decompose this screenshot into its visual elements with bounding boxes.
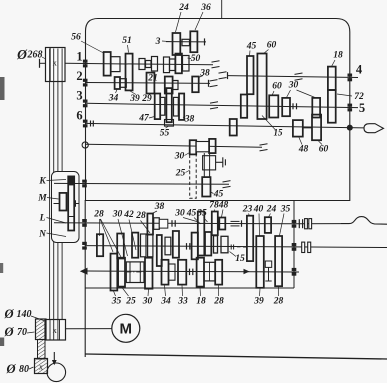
- svg-text:18: 18: [196, 297, 206, 307]
- break mark shaft 4 mid: [295, 73, 303, 80]
- wire leader d268: [42, 57, 48, 60]
- bearing shaft 2 left wall: [83, 79, 88, 87]
- wire countershaft: [166, 41, 206, 43]
- wire leader 38a: [199, 76, 204, 78]
- wire leader 23: [249, 214, 250, 217]
- wire shaft 1: [65, 63, 213, 65]
- gear 30 feed: [154, 218, 160, 230]
- gear 36: [190, 31, 197, 52]
- bearing shaft 4 right wall: [348, 74, 353, 82]
- wire leader 40: [258, 214, 261, 236]
- svg-text:55: 55: [160, 129, 170, 139]
- gear shaft6 mid: [230, 119, 237, 136]
- tick shaft 4 start: [227, 72, 229, 79]
- wire shaft 4: [228, 76, 350, 78]
- tick leadscrew a: [298, 219, 300, 228]
- bearing feed III arrow: [80, 268, 88, 275]
- gear 39 tall: [256, 236, 264, 288]
- break mark shaft 2: [210, 80, 218, 87]
- tick feed I b: [174, 220, 176, 227]
- wire leader 28g2: [141, 221, 151, 234]
- svg-text:30: 30: [112, 210, 123, 220]
- svg-text:36: 36: [200, 3, 211, 13]
- svg-text:30: 30: [174, 152, 185, 162]
- gear M: [60, 193, 67, 211]
- svg-text:80: 80: [19, 364, 29, 375]
- gear 28 feedII: [97, 234, 103, 256]
- tick leadscrew b: [302, 219, 304, 228]
- svg-text:39: 39: [129, 94, 140, 104]
- gear 28 tall right: [275, 236, 282, 286]
- svg-text:23: 23: [242, 205, 253, 215]
- wire leader 48: [299, 138, 302, 145]
- gear 35 tall: [111, 254, 118, 291]
- svg-text:70: 70: [17, 327, 27, 338]
- svg-text:25: 25: [175, 169, 186, 179]
- wire leader 38b: [183, 117, 186, 119]
- wire leader 25b: [122, 288, 129, 297]
- pump circle: [47, 363, 66, 382]
- wire leader 45s4: [249, 51, 252, 57]
- gear shaft7 right: [209, 139, 216, 153]
- wire motor to pulley: [66, 328, 112, 330]
- scan smudge mid left: [0, 263, 3, 273]
- wire leader 30g: [118, 219, 128, 256]
- gear 38 shaft2: [192, 77, 199, 93]
- svg-text:M: M: [120, 321, 133, 338]
- svg-text:30: 30: [174, 209, 185, 219]
- wire top section mark: [221, 0, 223, 19]
- pump arrow: [52, 352, 57, 365]
- wire shaft feed III: [87, 271, 294, 272]
- wire shaft 2: [85, 82, 210, 85]
- hub 34 bottom: [169, 264, 176, 280]
- gear 18-72 lower: [328, 90, 336, 123]
- wire leader 28b: [100, 219, 113, 252]
- svg-text:29: 29: [141, 94, 152, 104]
- gear 18-72 upper: [328, 67, 336, 90]
- wire leader 39b: [259, 289, 262, 297]
- gear cone c: [152, 57, 158, 72]
- bearing feed III right: [292, 268, 297, 276]
- pulley motor 140: [45, 320, 66, 341]
- gear 60 shaft5: [269, 95, 278, 117]
- gear 33: [178, 260, 186, 285]
- wire leader d70: [27, 332, 35, 333]
- coupling leadscrew: [305, 219, 312, 229]
- wire leader 25v: [186, 170, 191, 173]
- bearing ring shaft 7: [82, 142, 88, 148]
- wire M hub line: [54, 203, 60, 205]
- gear below 78: [214, 236, 218, 253]
- svg-text:18: 18: [333, 51, 343, 61]
- svg-text:34: 34: [160, 297, 171, 307]
- hub cone2: [170, 59, 176, 71]
- hub 34: [120, 79, 126, 88]
- svg-text:2: 2: [76, 69, 82, 83]
- wire machine bed line: [85, 354, 387, 359]
- wire leader N: [47, 233, 67, 237]
- wire leader 42g: [129, 220, 136, 251]
- tick shaft 2 end: [208, 80, 210, 87]
- gear cluster3 mid: [166, 88, 171, 122]
- gear feedII c: [132, 233, 138, 258]
- svg-text:35: 35: [111, 297, 122, 307]
- wire leader 30s5a: [287, 90, 291, 98]
- svg-text:K: K: [38, 177, 46, 187]
- spindle end bullet: [364, 124, 384, 133]
- bearing shaft 1 left wall: [83, 60, 88, 68]
- wire leader 18: [332, 60, 336, 67]
- svg-text:45: 45: [213, 190, 224, 200]
- gear 60 shaft4: [257, 54, 266, 120]
- svg-text:140: 140: [17, 309, 32, 320]
- gear feedII tall: [157, 235, 162, 266]
- bearing shaft 5 right wall: [348, 104, 353, 112]
- bearing feed II right: [292, 243, 297, 251]
- svg-text:30: 30: [288, 81, 299, 91]
- wire leader 15g: [262, 116, 276, 131]
- gear shaft5 left: [241, 95, 247, 118]
- svg-text:48: 48: [298, 145, 309, 155]
- break dashes shaft II: [231, 245, 246, 250]
- wire leadscrew hump: [341, 217, 387, 225]
- svg-text:45: 45: [186, 209, 197, 219]
- arrow feedII: [244, 269, 250, 275]
- bearing shaft 6 right wall: [347, 125, 353, 131]
- gear 78: [212, 212, 218, 236]
- wire feed III stub: [294, 271, 299, 273]
- wire leader L: [47, 218, 67, 224]
- tick feedII b: [189, 243, 191, 250]
- gear 45 feed tall: [198, 212, 205, 256]
- wire shaft feed II: [85, 246, 294, 247]
- wire main left vertical shaft line: [84, 200, 86, 357]
- pulley pump drive 70: [36, 319, 47, 340]
- gear 48: [293, 120, 303, 137]
- svg-text:24: 24: [178, 3, 189, 13]
- wire leader d140: [31, 316, 45, 321]
- svg-text:39: 39: [253, 297, 264, 307]
- wire leader 55: [166, 127, 169, 129]
- wire leader 56: [81, 41, 104, 53]
- wire leader 28br: [278, 287, 280, 296]
- scan smudge lower left: [0, 338, 4, 347]
- svg-text:45: 45: [246, 42, 257, 52]
- gear 38 feed: [147, 214, 153, 235]
- svg-text:15: 15: [235, 254, 245, 264]
- wire leader 30s7: [185, 152, 191, 156]
- tick shaft5 b: [296, 103, 298, 109]
- svg-text:40: 40: [253, 205, 264, 215]
- gear 30 shaft5: [282, 98, 290, 116]
- svg-text:28: 28: [93, 210, 104, 220]
- gear feedII e: [148, 235, 153, 257]
- svg-text:34: 34: [108, 94, 119, 104]
- gear 23 tall: [247, 216, 253, 261]
- gear cluster3 d: [174, 97, 179, 116]
- wire leader 28bb: [218, 286, 220, 297]
- gear cluster3 b: [160, 97, 165, 115]
- gear 34 bottom: [162, 260, 169, 285]
- wire headstock housing outline: [86, 19, 350, 201]
- wire leader 28c: [101, 219, 122, 257]
- bevel tick right: [216, 157, 225, 167]
- tick countershaft end: [204, 38, 206, 45]
- bearing feed I left: [82, 219, 87, 227]
- scan smudge upper left: [0, 77, 5, 100]
- bearing shaft 3 left wall: [83, 100, 88, 108]
- wire leader 30s5b: [297, 90, 316, 98]
- wire shaft K: [54, 182, 229, 185]
- svg-text:60: 60: [272, 82, 282, 92]
- coupling feed I: [159, 219, 168, 228]
- gear 21: [165, 77, 173, 94]
- wire leader 3: [162, 40, 171, 43]
- break mark shaft 3: [210, 102, 218, 109]
- break mark shaft 4: [219, 72, 227, 79]
- wire leader 34b: [165, 286, 166, 297]
- svg-text:42: 42: [123, 210, 134, 220]
- svg-text:60: 60: [267, 41, 277, 51]
- wire shaft 6: [85, 123, 364, 128]
- wire leader 24: [176, 12, 182, 32]
- gear 29: [147, 73, 155, 94]
- motor M circle: [112, 314, 140, 342]
- svg-text:33: 33: [177, 297, 188, 307]
- gear 28 bottom: [215, 260, 222, 285]
- gear feedII f: [165, 237, 171, 255]
- wire leader 45v: [211, 192, 214, 194]
- wire leader 45fg: [194, 218, 201, 225]
- gear 34: [115, 77, 120, 89]
- gear 25: [118, 258, 125, 287]
- wire shaft 3 to 5: [85, 103, 350, 107]
- svg-text:x: x: [39, 363, 43, 372]
- gear 50: [175, 54, 182, 74]
- joint dashes shaft I: [231, 221, 240, 226]
- svg-text:L: L: [39, 214, 46, 224]
- coupling feed rod: [302, 242, 311, 252]
- wire shaft 1 left stub: [40, 62, 46, 64]
- tick feedIII b: [192, 269, 194, 276]
- gear K top filled: [68, 176, 74, 185]
- wire leader 24f: [269, 214, 271, 218]
- gear 60 shaft6: [312, 115, 321, 141]
- pulley main drive 268: [46, 48, 66, 82]
- svg-text:24: 24: [266, 205, 277, 215]
- gear cone b: [146, 61, 152, 68]
- gear K split: [68, 216, 74, 218]
- gear K tall: [68, 176, 74, 230]
- svg-text:21: 21: [147, 74, 158, 84]
- wire leader 30b: [147, 290, 150, 297]
- wire stub end tick: [39, 59, 41, 68]
- wire leader 38f: [151, 211, 157, 214]
- tick feedII a: [186, 243, 188, 250]
- bearing feed I right: [292, 220, 297, 228]
- gear 56: [104, 52, 111, 76]
- svg-text:51: 51: [122, 36, 132, 46]
- wire leader 15: [230, 252, 237, 257]
- svg-text:Ø: Ø: [16, 47, 28, 62]
- gear 24 feed: [265, 217, 271, 233]
- wire leader 35fr: [280, 214, 285, 236]
- gear 51: [126, 54, 133, 91]
- break mark shaft 7: [260, 144, 268, 151]
- bearing feed II left: [82, 242, 87, 250]
- gear cone a: [139, 59, 145, 70]
- wire leader 48f: [222, 210, 224, 218]
- gear 35 feed lower: [205, 232, 211, 256]
- wire leader 78: [214, 210, 216, 213]
- svg-text:28: 28: [213, 297, 224, 307]
- svg-text:78: 78: [209, 201, 219, 211]
- tick shaft5 a: [292, 103, 294, 109]
- clutch tick reverse: [76, 200, 80, 206]
- wire feed gearbox right edge: [293, 201, 295, 289]
- bearing shaft K wall: [82, 180, 87, 188]
- hub right of 50: [183, 56, 190, 72]
- hub 21: [173, 81, 178, 90]
- svg-text:3: 3: [76, 89, 82, 103]
- wire leader 18b: [199, 288, 202, 297]
- svg-text:M: M: [37, 194, 47, 204]
- clutch between 39-28: [265, 261, 271, 281]
- svg-text:38: 38: [184, 115, 195, 125]
- wire leader 35fg: [204, 218, 208, 223]
- svg-text:50: 50: [191, 54, 201, 64]
- wire leader 39: [130, 91, 136, 95]
- gear right mid II: [221, 236, 228, 253]
- svg-text:56: 56: [71, 33, 81, 43]
- svg-text:72: 72: [354, 92, 364, 102]
- svg-text:47: 47: [138, 114, 150, 124]
- wire vertical bevel shaft: [204, 153, 209, 177]
- svg-text:Ø: Ø: [5, 362, 16, 376]
- hub between 24-36: [182, 39, 190, 45]
- svg-text:N: N: [38, 230, 47, 240]
- svg-text:35: 35: [280, 205, 291, 215]
- break mark shaft 1: [212, 61, 220, 68]
- coupling feed III: [126, 262, 144, 283]
- gear vertical bottom: [202, 177, 210, 196]
- wire leader 35b: [114, 291, 116, 296]
- node reverse box K-M-L-N outline: [52, 172, 80, 243]
- svg-text:x: x: [53, 326, 57, 335]
- wire leader 29: [149, 93, 151, 96]
- wire leader 36: [195, 12, 203, 30]
- wire leader 28a: [99, 219, 101, 236]
- wire feed gearbox bottom edge: [86, 287, 295, 289]
- tick feed I a: [171, 220, 173, 227]
- svg-text:28: 28: [273, 297, 284, 307]
- svg-text:4: 4: [356, 63, 363, 77]
- svg-text:25: 25: [125, 297, 136, 307]
- wire leader 50: [188, 57, 192, 60]
- coupling shaft7: [196, 142, 209, 152]
- pulley pump 80: [35, 359, 48, 374]
- break mark shaft K: [223, 181, 231, 188]
- tick shaft 6 a: [90, 121, 92, 127]
- tick feedIII a: [189, 269, 191, 276]
- gear feedII g: [173, 231, 179, 258]
- wire leader 60s4: [263, 50, 269, 55]
- wire leader 33b: [181, 286, 184, 297]
- wire leader 51: [128, 45, 129, 53]
- tick shaft 6 b: [92, 121, 94, 127]
- hub 48-60: [303, 127, 312, 129]
- gear 30 shaft7: [190, 140, 197, 154]
- svg-text:30: 30: [142, 297, 153, 307]
- tick feed I c: [241, 220, 243, 227]
- bearing shaft 6 left wall: [83, 120, 88, 128]
- wire shaft 7 lower: [85, 144, 262, 147]
- gear 30 bottom: [145, 258, 153, 289]
- wire shaft feed I: [54, 223, 294, 224]
- wire feed rod: [294, 246, 387, 249]
- belt main flat belt: [50, 49, 63, 340]
- wire shaft 5 stub: [350, 107, 358, 109]
- svg-text:Ø: Ø: [3, 307, 14, 321]
- gear 47: [155, 94, 161, 120]
- svg-text:6: 6: [76, 109, 82, 123]
- hub shaft6 small: [165, 120, 174, 127]
- hub shaft1: [111, 57, 120, 72]
- wire leader 72: [337, 94, 352, 96]
- wire leader 47: [149, 117, 155, 119]
- wire leader M: [47, 198, 59, 200]
- gear 18 bottom: [197, 258, 204, 287]
- wire shaft 4 stub: [350, 76, 358, 78]
- coupling 18-28: [204, 262, 215, 281]
- svg-text:1: 1: [76, 50, 82, 64]
- belt pump belt: [38, 340, 46, 360]
- wire leader d80: [29, 367, 34, 369]
- wire leader K: [47, 180, 67, 181]
- wire leader 60s5: [272, 91, 274, 96]
- svg-text:3: 3: [155, 37, 161, 47]
- wire leader 60s6: [319, 141, 323, 145]
- gear feedII b: [117, 234, 124, 259]
- svg-text:60: 60: [319, 145, 329, 155]
- hub cone: [164, 57, 170, 73]
- svg-text:Ø: Ø: [3, 325, 14, 339]
- gear dashed alternative: [190, 154, 197, 198]
- gear 30b shaft5: [312, 98, 320, 118]
- gear feedII h: [192, 233, 198, 260]
- svg-text:28: 28: [135, 211, 146, 221]
- wire leadscrew: [294, 223, 341, 225]
- svg-text:38: 38: [199, 69, 210, 79]
- svg-text:48: 48: [218, 201, 229, 211]
- gear 48 feed: [219, 218, 225, 230]
- gear feedII d: [141, 234, 147, 257]
- wire leader 30fg: [183, 218, 199, 223]
- svg-text:5: 5: [359, 101, 365, 115]
- wire leader 34: [116, 90, 118, 94]
- gear 24: [173, 33, 181, 55]
- svg-text:38: 38: [154, 202, 165, 212]
- gear 45 shaft4: [247, 56, 254, 94]
- gear 38 shaft3: [179, 94, 184, 120]
- bevel gear box: [203, 156, 216, 170]
